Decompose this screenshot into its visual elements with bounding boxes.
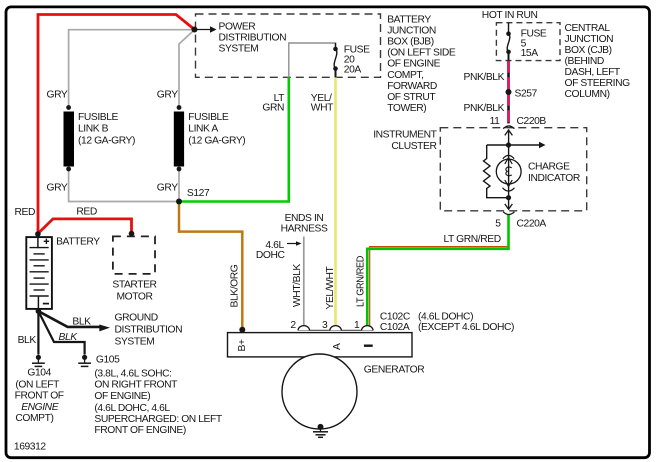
svg-text:A: A xyxy=(332,343,343,350)
svg-text:CENTRAL: CENTRAL xyxy=(565,23,611,34)
svg-text:LINK A: LINK A xyxy=(188,124,218,135)
svg-text:C220B: C220B xyxy=(517,116,547,127)
svg-text:1: 1 xyxy=(354,320,360,331)
svg-text:BLK: BLK xyxy=(59,332,79,343)
svg-text:(12 GA-GRY): (12 GA-GRY) xyxy=(78,136,135,147)
svg-text:(BEHIND: (BEHIND xyxy=(565,56,604,67)
svg-text:RED: RED xyxy=(76,206,96,217)
svg-text:COMPT,: COMPT, xyxy=(387,70,423,81)
svg-text:POWER: POWER xyxy=(219,22,256,33)
svg-text:COLUMN): COLUMN) xyxy=(565,89,610,100)
svg-text:BATTERY: BATTERY xyxy=(387,14,431,25)
svg-text:LINK B: LINK B xyxy=(78,124,109,135)
svg-text:(4.6L DOHC, 4.6L: (4.6L DOHC, 4.6L xyxy=(94,403,170,414)
svg-text:WHT/BLK: WHT/BLK xyxy=(292,264,303,307)
svg-text:CLUSTER: CLUSTER xyxy=(391,141,436,152)
svg-text:OF STEERING: OF STEERING xyxy=(565,78,631,89)
svg-text:GRY: GRY xyxy=(157,183,178,194)
svg-text:OF ENGINE): OF ENGINE) xyxy=(94,391,150,402)
svg-text:GRY: GRY xyxy=(47,90,68,101)
svg-text:SUPERCHARGED: ON LEFT: SUPERCHARGED: ON LEFT xyxy=(94,414,222,425)
svg-text:ENGINE: ENGINE xyxy=(21,402,59,413)
svg-text:G105: G105 xyxy=(96,355,120,366)
svg-text:BOX (BJB): BOX (BJB) xyxy=(387,37,434,48)
svg-text:HARNESS: HARNESS xyxy=(281,224,328,235)
svg-text:SYSTEM: SYSTEM xyxy=(115,337,155,348)
svg-text:(12 GA-GRY): (12 GA-GRY) xyxy=(188,136,245,147)
svg-text:C220A: C220A xyxy=(517,219,547,230)
svg-text:INDICATOR: INDICATOR xyxy=(528,173,580,184)
svg-text:FUSIBLE: FUSIBLE xyxy=(78,112,119,123)
svg-text:ON RIGHT FRONT: ON RIGHT FRONT xyxy=(94,380,178,391)
svg-text:OF STRUT: OF STRUT xyxy=(387,92,436,103)
svg-text:11: 11 xyxy=(490,116,501,127)
svg-text:STARTER: STARTER xyxy=(112,279,156,290)
svg-text:FORWARD: FORWARD xyxy=(387,81,437,92)
svg-text:FUSIBLE: FUSIBLE xyxy=(188,112,229,123)
svg-text:G104: G104 xyxy=(27,368,51,379)
svg-text:GROUND: GROUND xyxy=(115,312,158,323)
svg-text:MOTOR: MOTOR xyxy=(116,291,152,302)
svg-text:GRY: GRY xyxy=(157,90,178,101)
svg-text:169312: 169312 xyxy=(14,442,47,453)
svg-text:LT GRN/RED: LT GRN/RED xyxy=(444,234,501,245)
svg-text:C102A: C102A xyxy=(380,322,410,333)
svg-text:HOT IN RUN: HOT IN RUN xyxy=(482,10,538,21)
svg-text:GENERATOR: GENERATOR xyxy=(364,364,425,375)
svg-text:DASH, LEFT: DASH, LEFT xyxy=(565,67,621,78)
svg-text:INSTRUMENT: INSTRUMENT xyxy=(373,129,437,140)
svg-text:RED: RED xyxy=(15,207,35,218)
svg-text:GRN: GRN xyxy=(262,103,284,114)
svg-text:BATTERY: BATTERY xyxy=(56,237,100,248)
svg-text:PNK/BLK: PNK/BLK xyxy=(464,72,505,83)
svg-text:20A: 20A xyxy=(344,65,362,76)
svg-text:DISTRIBUTION: DISTRIBUTION xyxy=(115,324,183,335)
svg-text:CHARGE: CHARGE xyxy=(528,162,570,173)
svg-text:WHT: WHT xyxy=(311,103,334,114)
svg-text:JUNCTION: JUNCTION xyxy=(565,34,614,45)
svg-text:GRY: GRY xyxy=(47,183,68,194)
svg-text:FRONT OF: FRONT OF xyxy=(15,391,64,402)
svg-text:(3.8L, 4.6L SOHC:: (3.8L, 4.6L SOHC: xyxy=(94,369,171,380)
svg-text:OF ENGINE: OF ENGINE xyxy=(387,59,440,70)
svg-text:FRONT OF ENGINE): FRONT OF ENGINE) xyxy=(94,425,185,436)
svg-text:YEL/WHT: YEL/WHT xyxy=(325,266,336,310)
svg-text:COMPT): COMPT) xyxy=(15,413,53,424)
svg-text:(ON LEFT: (ON LEFT xyxy=(15,380,60,391)
svg-text:BOX (CJB): BOX (CJB) xyxy=(565,45,612,56)
svg-text:S127: S127 xyxy=(187,188,210,199)
svg-text:TOWER): TOWER) xyxy=(387,103,426,114)
svg-text:BLK: BLK xyxy=(72,317,91,328)
svg-text:LT GRN/RED: LT GRN/RED xyxy=(356,256,367,307)
svg-text:JUNCTION: JUNCTION xyxy=(387,25,436,36)
svg-text:PNK/BLK: PNK/BLK xyxy=(464,103,505,114)
svg-text:2: 2 xyxy=(290,320,296,331)
svg-text:15A: 15A xyxy=(521,48,539,59)
svg-text:S257: S257 xyxy=(515,89,538,100)
svg-text:(ON LEFT SIDE: (ON LEFT SIDE xyxy=(387,48,456,59)
svg-text:BLK: BLK xyxy=(18,335,37,346)
svg-text:3: 3 xyxy=(322,320,328,331)
svg-text:BLK/ORG: BLK/ORG xyxy=(230,264,241,307)
svg-text:B+: B+ xyxy=(237,339,248,351)
svg-text:DISTRIBUTION: DISTRIBUTION xyxy=(219,33,287,44)
svg-text:SYSTEM: SYSTEM xyxy=(219,43,259,54)
svg-text:(EXCEPT 4.6L DOHC): (EXCEPT 4.6L DOHC) xyxy=(418,322,514,333)
svg-text:ENDS IN: ENDS IN xyxy=(285,213,324,224)
svg-text:5: 5 xyxy=(495,219,501,230)
svg-text:DOHC: DOHC xyxy=(256,250,286,261)
